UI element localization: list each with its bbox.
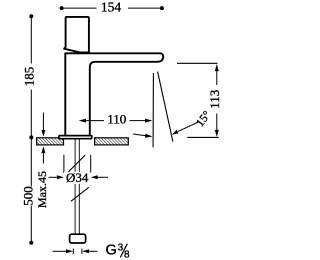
inlet nut xyxy=(70,234,86,243)
countertop right slab xyxy=(95,138,129,145)
dim G3/8 arrows and ticks xyxy=(53,249,98,254)
angle 15deg leader arrow xyxy=(178,122,199,131)
dim 113 bottom reference line xyxy=(187,136,219,138)
dim Max.45 arrow down xyxy=(42,113,44,131)
svg-text:Max.45: Max.45 xyxy=(35,171,49,208)
dim Ø34 arrows xyxy=(49,176,58,178)
svg-text:154: 154 xyxy=(101,0,122,15)
dim Ø34 extension lines xyxy=(64,155,91,173)
dim 113 vertical line xyxy=(216,71,218,131)
svg-text:G: G xyxy=(106,243,117,259)
svg-text:500: 500 xyxy=(21,186,36,206)
svg-text:Ø34: Ø34 xyxy=(66,170,89,185)
base flange xyxy=(59,136,92,139)
dim 185/500 vertical line xyxy=(30,16,32,242)
svg-text:113: 113 xyxy=(207,90,222,109)
stream vertical line xyxy=(152,73,154,147)
hose break mark lower xyxy=(71,187,89,201)
faucet body outline xyxy=(65,53,163,135)
dim Max.45 arrow up xyxy=(42,153,44,164)
dim Ø34 text xyxy=(64,172,91,184)
G3/8 thread label xyxy=(106,243,131,260)
svg-text:110: 110 xyxy=(107,112,126,127)
dim 113 top reference line xyxy=(177,62,218,64)
supply pipe xyxy=(75,139,79,235)
dim 154 end dots xyxy=(60,6,64,10)
svg-text:8: 8 xyxy=(124,250,130,260)
stream 15deg line xyxy=(158,72,173,142)
dim 110 xyxy=(86,120,146,122)
angle arrow at vertical line xyxy=(133,134,146,136)
dim 185/500 node dots xyxy=(29,14,33,18)
handle lever xyxy=(64,17,89,53)
hose break mark upper xyxy=(67,155,86,174)
svg-text:185: 185 xyxy=(22,67,37,87)
dim 154 line xyxy=(62,7,162,9)
countertop left slab xyxy=(37,138,64,145)
